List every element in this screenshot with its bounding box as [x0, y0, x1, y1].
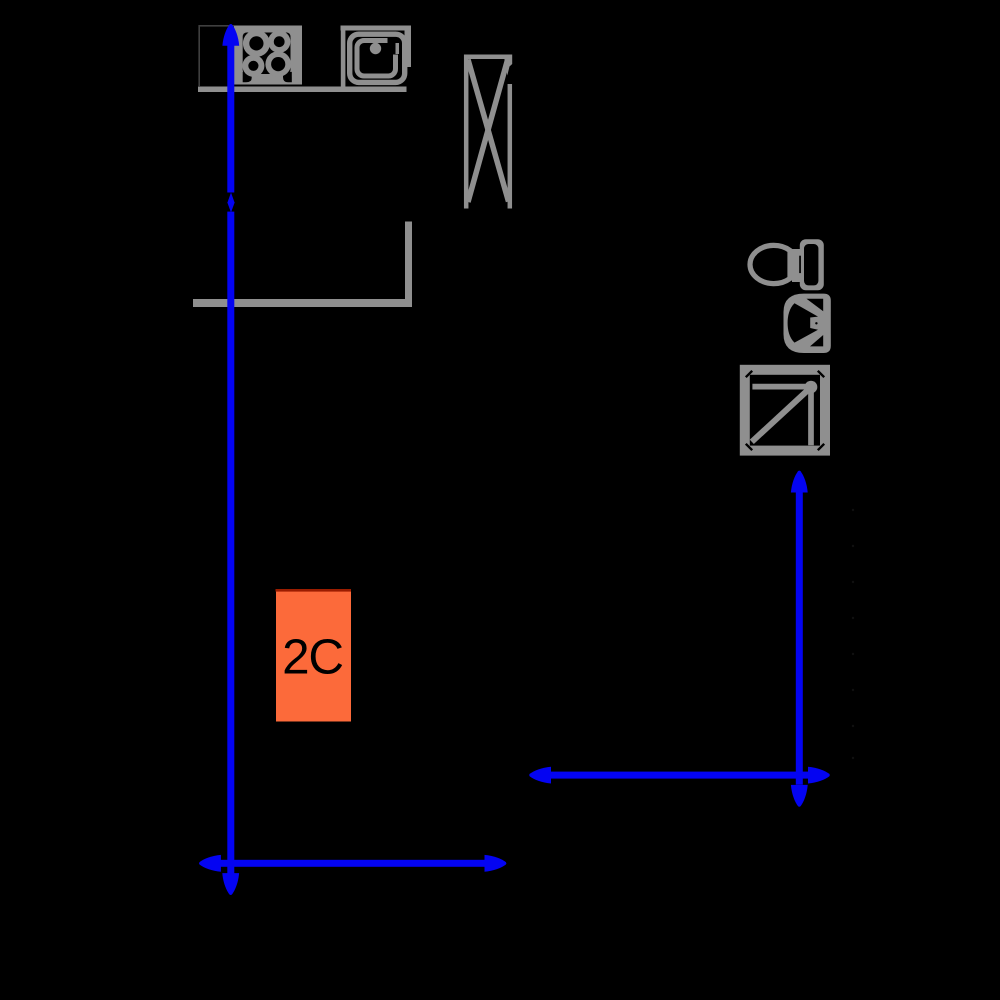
toilet — [750, 239, 824, 290]
faint dotted extension line — [852, 509, 854, 759]
wash basin — [784, 294, 831, 353]
shower tray — [745, 370, 825, 451]
vertical dimension arrow left — [222, 24, 239, 895]
kitchen counter front edge — [198, 87, 407, 93]
svg-text:2C: 2C — [282, 630, 343, 685]
stove (cooktop, 4 burners) — [234, 26, 302, 85]
horizontal dimension arrow bottom-right — [529, 767, 830, 784]
kitchen counter faint outline box — [199, 26, 234, 86]
room label 2C (orange) — [276, 589, 352, 722]
wardrobe (rect with X) — [466, 55, 512, 209]
horizontal dimension arrow bottom-left — [199, 855, 506, 872]
interior wall horizontal — [193, 299, 412, 307]
interior wall vertical — [405, 222, 412, 308]
vertical dimension arrow right — [791, 471, 808, 807]
kitchen sink — [341, 26, 412, 90]
